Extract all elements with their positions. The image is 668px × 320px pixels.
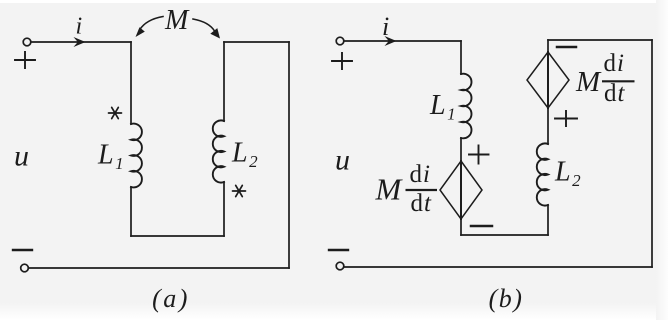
terminal bottom-left (a) [21,264,29,272]
wire top (b) [345,40,462,42]
plus sign dep source 1 (b) [469,146,489,164]
svg-text:di: di [410,161,431,188]
dependent source 2 axis wire (b) [547,52,549,108]
plus sign dep source 2 (b) [555,111,577,126]
wire below L2 (a) [223,182,225,236]
minus sign source (b) [329,249,348,251]
mutual arrowhead right (a) [210,28,220,38]
minus sign source (a) [13,249,32,251]
wire above L2 (a) [223,42,225,121]
svg-text:(b): (b) [489,284,524,313]
wire top right (b) [548,39,652,41]
svg-text:i: i [382,12,389,41]
terminal bottom-left (b) [336,262,344,270]
wire top right (a) [224,41,289,43]
wire top (a) [32,41,132,43]
wire left branch down (a) [130,42,132,124]
svg-text:(a): (a) [152,284,190,313]
wire bottom outer (b) [344,266,652,268]
mutual arrow right (a) [193,19,215,31]
mutual arrow left (a) [140,17,164,31]
wire L1 to source1 (b) [460,138,462,161]
wire right side (a) [288,42,290,268]
terminal top-left (a) [23,38,31,46]
wire source1 to bottom (b) [460,219,462,235]
svg-text:u: u [335,144,350,177]
svg-text:dt: dt [411,190,433,217]
wire bottom inner (a) [131,235,224,237]
current arrow (b) [385,36,397,46]
svg-text:i: i [76,14,83,40]
current arrow (a) [74,37,86,47]
inductor L2 coil (b) [537,143,548,205]
svg-text:M: M [575,66,602,98]
minus sign dep source 1 (b) [471,225,492,228]
wire L2 to source2 (b) [547,108,549,144]
inductor L2 coil (a) [213,120,224,182]
wire down to L1 (b) [460,41,462,74]
mutual arrowhead left (a) [136,27,145,37]
wire bottom inner (b) [461,234,548,236]
wire bottom outer (a) [29,267,289,269]
svg-text:di: di [604,50,625,77]
svg-text:M: M [164,5,190,36]
inductor L1 coil (a) [131,124,142,188]
dependent source 1 axis wire (b) [460,161,462,219]
plus sign source (b) [332,53,352,69]
svg-text:dt: dt [604,80,626,107]
wire below L1 (a) [130,187,132,236]
star dot L2 (a) [233,185,246,196]
plus sign source (a) [15,52,35,68]
star dot L1 (a) [109,107,122,118]
wire source2 to top (b) [547,40,549,52]
inductor L1 coil (b) [461,74,472,139]
wire right side (b) [651,40,653,267]
wire up to L2 (b) [547,205,549,235]
dependent source 1 diamond (b) [440,161,482,219]
svg-text:u: u [14,140,29,173]
dependent source 2 diamond (b) [527,52,569,108]
minus sign dep source 2 (b) [557,46,576,49]
fraction di/dt source 2 (b) [602,50,635,107]
terminal top-left (b) [336,37,344,45]
svg-text:M: M [375,172,404,207]
fraction di/dt source 1 (b) [406,161,438,217]
